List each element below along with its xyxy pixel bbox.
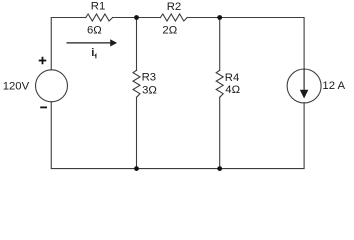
wire R3 to node C: [136, 97, 138, 168]
wire current source to node D (bottom-right corner): [220, 103, 304, 169]
resistor R3: [133, 70, 140, 97]
svg-text:120V: 120V: [3, 81, 30, 93]
node D: [217, 166, 222, 171]
wire R4 to node D: [219, 97, 221, 168]
wire node C to V1 minus (bottom-left corner): [51, 102, 136, 169]
wire node B to current source (top-right corner): [220, 18, 304, 70]
wire R1 to node A: [113, 17, 137, 19]
svg-text:2Ω: 2Ω: [162, 25, 177, 37]
current source I1 arrow: [301, 69, 308, 97]
node A: [134, 15, 139, 20]
wire R2 to node B: [187, 17, 220, 19]
voltage source V1 circle: [36, 70, 68, 102]
wire node B down to R4: [219, 18, 221, 71]
svg-text:6Ω: 6Ω: [87, 24, 102, 36]
wire node A down to R3: [136, 18, 138, 71]
svg-text:i: i: [91, 47, 94, 59]
svg-text:4Ω: 4Ω: [225, 84, 240, 96]
resistor R4: [216, 70, 223, 97]
wire node D to node C (bottom): [137, 168, 220, 170]
V1 plus sign: [39, 57, 47, 65]
node C: [134, 166, 139, 171]
svg-text:3Ω: 3Ω: [142, 84, 157, 96]
current source I1 circle: [287, 69, 321, 103]
wire V1+ to R1 (top-left corner): [51, 18, 85, 70]
wire node A to R2: [137, 17, 161, 19]
svg-text:R3: R3: [142, 72, 156, 84]
branch current arrow i1: [67, 40, 116, 45]
V1 minus sign: [40, 106, 47, 108]
svg-text:R1: R1: [91, 1, 105, 13]
node B: [217, 15, 222, 20]
resistor R2: [160, 14, 187, 21]
svg-text:R2: R2: [167, 1, 181, 13]
svg-text:R4: R4: [225, 72, 239, 84]
resistor R1: [86, 14, 113, 21]
svg-text:12 A: 12 A: [322, 80, 345, 92]
